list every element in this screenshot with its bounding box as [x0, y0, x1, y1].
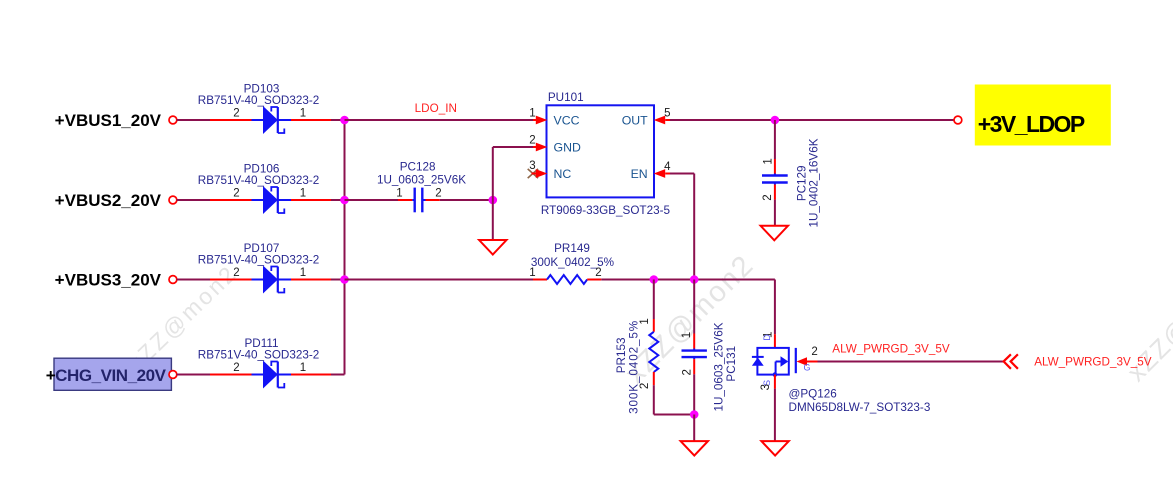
gate arrow of PQ126: [797, 357, 808, 365]
svg-text:+CHG_VIN_20V: +CHG_VIN_20V: [46, 366, 167, 385]
ground under PQ126: [761, 441, 788, 456]
svg-text:2: 2: [639, 383, 651, 389]
svg-text:1: 1: [300, 188, 306, 200]
svg-text:3: 3: [529, 160, 535, 172]
svg-text:1U_0402_16V6K: 1U_0402_16V6K: [807, 138, 820, 227]
wire PC129 to ground: [774, 183, 776, 226]
junction PR153 top: [650, 275, 659, 284]
svg-text:1: 1: [300, 267, 306, 279]
ground under PC128: [479, 240, 506, 255]
svg-text:+VBUS3_20V: +VBUS3_20V: [55, 271, 162, 290]
wire PD107 cathode net segment: [291, 279, 345, 281]
wire row3 to PR153: [653, 280, 655, 332]
junction bus row1: [340, 116, 349, 125]
wire PR149 to PQ126 drain column: [587, 279, 775, 281]
svg-text:2: 2: [811, 346, 817, 358]
junction OUT PC129: [771, 116, 780, 125]
wire row3 bus to PR149: [345, 279, 548, 281]
svg-text:PR149: PR149: [554, 242, 590, 255]
svg-text:LDO_IN: LDO_IN: [415, 102, 457, 115]
port box +3V_LDOP: [975, 85, 1111, 146]
terminal +VBUS1_20V: [169, 116, 177, 124]
svg-text:PR153: PR153: [615, 338, 628, 374]
capacitor PC129: [762, 176, 788, 183]
terminal +CHG_VIN_20V: [169, 371, 177, 379]
svg-text:4: 4: [664, 161, 671, 173]
wire row3 to PQ126 drain: [774, 280, 776, 348]
wire PR153 to corner: [654, 372, 694, 415]
terminal +3V_LDOP: [954, 116, 962, 124]
pin 4 arrow EN: [654, 169, 666, 178]
svg-text:RB751V-40_SOD323-2: RB751V-40_SOD323-2: [198, 174, 320, 187]
junction PC131 top: [690, 275, 699, 284]
resistor PR153: [649, 332, 658, 372]
wire PD103 anode net segment: [177, 119, 252, 121]
wire PD106 anode net segment: [177, 199, 252, 201]
svg-text:+3V_LDOP: +3V_LDOP: [978, 111, 1085, 137]
svg-text:2: 2: [233, 362, 239, 374]
pin 1 arrow VCC: [536, 116, 548, 125]
wire PC128 to junction: [422, 199, 493, 201]
svg-text:ALW_PWRGD_3V_5V: ALW_PWRGD_3V_5V: [832, 342, 950, 355]
svg-text:G: G: [803, 363, 810, 373]
wire PD111 cathode net segment: [291, 374, 345, 376]
svg-text:2: 2: [681, 369, 693, 375]
svg-text:VCC: VCC: [554, 113, 580, 127]
svg-text:1: 1: [396, 187, 402, 199]
junction bus row2: [340, 196, 349, 205]
svg-text:OUT: OUT: [622, 113, 648, 127]
svg-text:DMN65D8LW-7_SOT323-3: DMN65D8LW-7_SOT323-3: [789, 401, 931, 414]
ground under PC131: [681, 441, 708, 456]
junction PC131 bottom: [690, 410, 699, 419]
svg-text:1: 1: [763, 158, 775, 164]
wire PC131 to junction: [693, 357, 695, 414]
svg-text:2: 2: [233, 108, 239, 120]
no-connect X on pin 3: [528, 169, 538, 178]
svg-text:EN: EN: [631, 167, 648, 181]
svg-text:300K_0402_5%: 300K_0402_5%: [627, 320, 640, 414]
svg-text:D: D: [762, 334, 772, 341]
wire PD106 cathode net segment: [291, 199, 345, 201]
junction PC128 right: [489, 196, 498, 205]
wire junction to ground PC131: [693, 415, 695, 442]
wire PQ126 source to ground: [774, 375, 776, 442]
svg-text:@PQ126: @PQ126: [789, 388, 837, 401]
svg-text:2: 2: [762, 194, 774, 200]
svg-text:PC128: PC128: [400, 160, 436, 173]
svg-text:1: 1: [300, 108, 306, 120]
wire row2 bus to PC128: [345, 199, 415, 201]
svg-text:2: 2: [233, 188, 239, 200]
svg-text:2: 2: [529, 134, 535, 146]
svg-text:1: 1: [681, 332, 693, 338]
wire gate net ALW_PWRGD_3V_5V: [806, 361, 1004, 363]
diode PD103 RB751V-40: [252, 106, 292, 134]
svg-text:PU101: PU101: [548, 91, 584, 104]
resistor PR149: [547, 275, 587, 284]
op-amp/regulator PU101 body: [547, 105, 655, 197]
svg-text:RB751V-40_SOD323-2: RB751V-40_SOD323-2: [198, 94, 320, 107]
svg-text:GND: GND: [554, 140, 581, 154]
pin 5 arrow OUT: [654, 116, 666, 125]
svg-text:5: 5: [664, 107, 670, 119]
capacitor PC128: [415, 188, 423, 213]
wire OUT to terminal: [665, 119, 954, 121]
capacitor PC131: [682, 351, 707, 358]
svg-text:RB751V-40_SOD323-2: RB751V-40_SOD323-2: [198, 254, 320, 267]
svg-text:RB751V-40_SOD323-2: RB751V-40_SOD323-2: [198, 349, 320, 362]
wire LDO_IN: [345, 119, 539, 121]
svg-text:1: 1: [529, 267, 535, 279]
wire OUT junction down to PC129: [774, 120, 776, 176]
svg-text:1U_0603_25V6K: 1U_0603_25V6K: [712, 322, 725, 411]
terminal +VBUS3_20V: [169, 276, 177, 284]
svg-text:+VBUS1_20V: +VBUS1_20V: [55, 111, 162, 130]
wire junction to ground: [492, 200, 494, 240]
pin 2 arrow GND: [536, 143, 548, 152]
wire PD107 anode net segment: [177, 279, 252, 281]
svg-text:PC131: PC131: [725, 346, 738, 382]
svg-text:1U_0603_25V6K: 1U_0603_25V6K: [377, 173, 466, 186]
svg-text:RT9069-33GB_SOT23-5: RT9069-33GB_SOT23-5: [541, 204, 671, 217]
transistor PQ126 body: [752, 348, 796, 377]
wire PD103 cathode net segment: [291, 119, 345, 121]
svg-text:2: 2: [435, 187, 441, 199]
svg-text:2: 2: [233, 267, 239, 279]
off-page connector chevrons: [1004, 354, 1018, 369]
svg-text:+VBUS2_20V: +VBUS2_20V: [55, 191, 162, 210]
pin 3 arrow NC: [532, 169, 548, 178]
svg-text:3: 3: [760, 384, 772, 390]
junction bus row3: [340, 275, 349, 284]
svg-text:1: 1: [529, 107, 535, 119]
ground under PC129: [761, 226, 788, 241]
svg-text:1: 1: [639, 318, 651, 324]
wire PD111 anode net segment: [177, 374, 252, 376]
svg-text:2: 2: [595, 267, 601, 279]
wire vbus bus vertical: [344, 120, 346, 375]
diode PD106 RB751V-40: [252, 186, 292, 214]
wire row3 to PC131: [693, 280, 695, 351]
terminal +VBUS2_20V: [169, 196, 177, 204]
wire EN to row3: [665, 174, 694, 280]
diode PD111 RB751V-40: [252, 361, 292, 389]
svg-text:1: 1: [300, 362, 306, 374]
svg-text:NC: NC: [554, 167, 572, 181]
port box +CHG_VIN_20V: [54, 358, 171, 390]
wire GND pin branch: [493, 147, 538, 200]
diode PD107 RB751V-40: [252, 266, 292, 294]
svg-text:ALW_PWRGD_3V_5V: ALW_PWRGD_3V_5V: [1034, 356, 1152, 369]
